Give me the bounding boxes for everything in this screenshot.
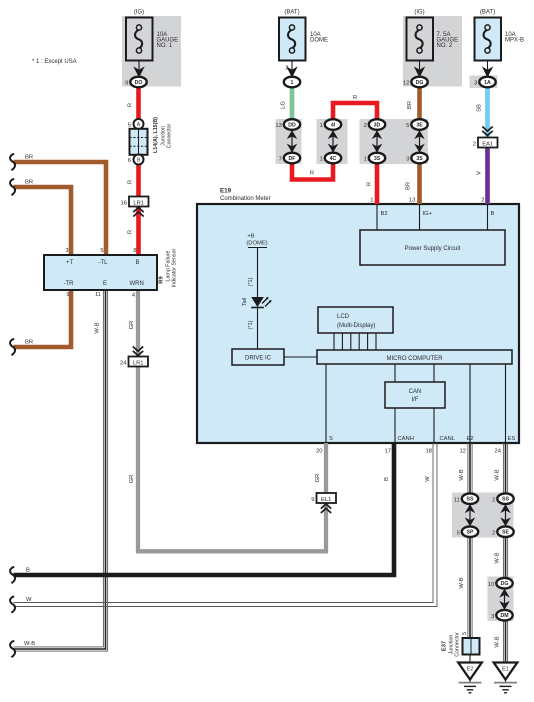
svg-text:B: B — [136, 260, 140, 266]
svg-text:W: W — [425, 476, 431, 482]
shaded block connector 1A area — [470, 76, 498, 89]
svg-text:DD: DD — [288, 123, 296, 129]
connector DF pin 7 — [279, 153, 301, 164]
fuse DOME 10A (BAT) — [279, 10, 328, 61]
svg-text:NO. 2: NO. 2 — [437, 43, 453, 49]
svg-text:BR: BR — [25, 340, 33, 346]
junction pass-through arrows DG-DM — [500, 589, 509, 611]
wire CANH CAN IF to pin — [394, 408, 396, 443]
svg-text:3: 3 — [474, 81, 477, 87]
shaded block fuse GAUGE NO.2 area — [403, 16, 462, 87]
svg-text:6: 6 — [128, 158, 131, 164]
svg-text:CAN: CAN — [409, 389, 422, 395]
shaded block connectors DG/DM — [488, 577, 514, 622]
connector 1A pin 3 — [474, 77, 496, 88]
svg-text:2: 2 — [492, 530, 495, 536]
wire LG from DOME fuse to connector DD — [290, 84, 295, 121]
svg-text:E19: E19 — [220, 188, 232, 195]
wire break squiggle BR3 — [10, 339, 15, 355]
svg-text:R: R — [367, 182, 373, 186]
svg-text:24: 24 — [120, 360, 127, 366]
svg-text:2: 2 — [473, 141, 476, 147]
shaded block connectors DD/DF — [276, 119, 302, 164]
svg-text:SS: SS — [502, 497, 509, 503]
svg-text:11: 11 — [95, 292, 101, 298]
svg-text:4I: 4I — [331, 123, 336, 129]
svg-text:5: 5 — [100, 248, 103, 254]
arrow below fuse GAUGE NO.2 — [419, 61, 421, 70]
wire B from E19 pin CANH — [14, 443, 395, 575]
connector DD pin 13 — [275, 119, 300, 130]
svg-text:R9: R9 — [159, 276, 165, 284]
micro computer box — [317, 350, 512, 364]
svg-text:W-B: W-B — [24, 641, 35, 647]
svg-text:W-B: W-B — [95, 322, 101, 333]
svg-text:DM: DM — [500, 613, 508, 619]
connector SS pin 2 — [492, 493, 514, 504]
svg-text:5: 5 — [128, 123, 131, 129]
wire micro computer to CAN IF — [394, 364, 396, 382]
connector SE pin 2 — [492, 526, 514, 537]
wire R from fuse GAUGE NO.1 column down to R9 pin B — [136, 84, 141, 255]
wire break squiggle BR1 — [10, 154, 15, 170]
wire break squiggle W — [10, 596, 15, 612]
wire W-B from SP to E37 — [467, 537, 469, 638]
power supply circuit box — [360, 230, 505, 265]
wire BR to R9 pin +T — [14, 187, 72, 255]
wire break squiggle W-B — [10, 641, 15, 657]
svg-text:LG: LG — [281, 101, 287, 109]
svg-text:ES: ES — [508, 436, 516, 442]
connector LR1 pin 24 — [120, 347, 148, 367]
wire CANL CAN IF to pin — [433, 408, 435, 443]
junction pass-through arrows 3E-3S — [415, 130, 424, 153]
svg-text:Tail: Tail — [242, 298, 248, 306]
svg-text:3: 3 — [406, 157, 409, 163]
svg-text:(Multi-Display): (Multi-Display) — [337, 323, 375, 329]
svg-text:9: 9 — [311, 497, 314, 503]
wire W-B from E19 pin E2 to SS — [467, 443, 469, 494]
svg-text:4C: 4C — [330, 156, 337, 162]
svg-text:R: R — [128, 180, 134, 184]
svg-text:12: 12 — [460, 449, 466, 455]
svg-text:3: 3 — [491, 614, 494, 620]
svg-text:BR: BR — [25, 180, 33, 186]
svg-text:MPX-B: MPX-B — [505, 37, 524, 43]
connector SS pin 11 — [454, 493, 478, 504]
svg-text:L14(A), L15(B): L14(A), L15(B) — [153, 117, 159, 153]
connector 3E pin 5 — [406, 119, 428, 130]
svg-text:1A: 1A — [484, 80, 491, 86]
svg-text:3: 3 — [65, 248, 68, 254]
wire E2 micro computer to pin — [469, 364, 471, 443]
svg-text:Combination Meter: Combination Meter — [220, 196, 271, 202]
svg-text:DG: DG — [416, 80, 424, 86]
fuse GAUGE NO.1 10A (IG) — [126, 10, 178, 61]
E19 pin B lead — [487, 205, 489, 230]
arrow below fuse DOME — [291, 61, 293, 70]
CAN IF box — [385, 382, 445, 408]
node +B (DOME) — [246, 234, 267, 350]
connector DO pin 9 — [125, 77, 147, 88]
svg-text:3S: 3S — [374, 156, 381, 162]
junction pass-through arrows SS-SP — [466, 504, 475, 527]
svg-text:B: B — [26, 568, 30, 574]
svg-text:IG+: IG+ — [423, 211, 433, 217]
svg-text:5: 5 — [406, 123, 409, 129]
connector 3D pin 2 — [364, 119, 386, 130]
svg-text:13: 13 — [409, 198, 415, 204]
arrow below fuse MPX-B — [487, 61, 489, 70]
svg-text:V: V — [477, 171, 483, 175]
svg-text:NO. 1: NO. 1 — [157, 43, 173, 49]
wire W-B from R9 pin E — [14, 290, 104, 647]
wire ES micro computer to pin — [505, 364, 507, 443]
LCD bus lines — [334, 333, 376, 350]
svg-text:GR: GR — [129, 475, 135, 484]
wire BR from fuse GAUGE NO.2 to connector 3E — [417, 84, 422, 121]
connector EL1 pin 9 — [311, 493, 336, 513]
E19 pin IG+ lead — [419, 205, 421, 230]
drive IC box — [232, 349, 284, 365]
svg-text:BR: BR — [407, 101, 413, 109]
svg-text:(IG): (IG) — [134, 10, 144, 16]
svg-text:B: B — [491, 211, 495, 217]
ground E1 — [494, 663, 518, 693]
junction connector L14(A), L15(B) — [128, 117, 173, 165]
svg-text:LR1: LR1 — [133, 200, 144, 206]
svg-text:-TR: -TR — [64, 281, 75, 287]
shaded block fuse GAUGE NO.1 area — [122, 16, 181, 87]
wire GR from R9 pin WRN to E19 pin S — [138, 290, 326, 551]
wire R from 3S to E19 pin B2 — [375, 163, 380, 204]
svg-text:Power Supply Circuit: Power Supply Circuit — [405, 246, 461, 252]
wire break squiggle B — [10, 567, 15, 583]
svg-text:SE: SE — [502, 530, 509, 536]
svg-text:W-B: W-B — [495, 552, 501, 563]
svg-text:BR: BR — [25, 155, 33, 161]
connector 4I pin 1 — [320, 119, 342, 130]
combination meter E19 box — [197, 188, 519, 444]
svg-text:E37: E37 — [442, 641, 448, 651]
svg-text:18: 18 — [426, 449, 432, 455]
svg-text:+B: +B — [247, 234, 254, 240]
svg-text:(*1): (*1) — [248, 277, 254, 286]
connector SP pin 5 — [457, 526, 479, 537]
junction pass-through arrows SS-SE — [501, 504, 510, 527]
svg-text:5: 5 — [457, 530, 460, 536]
svg-text:-TL: -TL — [99, 260, 109, 266]
shaded block connectors SS/SP/SS/SE — [452, 493, 514, 538]
connector 3S pin 3 — [406, 153, 428, 164]
svg-text:B: B — [384, 477, 390, 481]
svg-text:10: 10 — [488, 582, 494, 588]
svg-text:(BAT): (BAT) — [284, 10, 299, 16]
svg-text:3D: 3D — [374, 123, 381, 129]
svg-text:8: 8 — [133, 248, 136, 254]
svg-text:24: 24 — [495, 449, 502, 455]
E19 pin B2 lead — [376, 205, 378, 230]
svg-text:LCD: LCD — [337, 314, 350, 320]
junction pass-through arrows DD-DF — [288, 130, 297, 153]
svg-text:WRN: WRN — [130, 281, 144, 287]
wire drive IC to micro computer — [284, 356, 317, 358]
svg-text:3E: 3E — [416, 123, 423, 129]
svg-text:E1: E1 — [502, 667, 509, 673]
svg-text:2: 2 — [492, 497, 495, 503]
svg-text:17: 17 — [385, 449, 391, 455]
svg-text:S: S — [329, 436, 333, 442]
svg-text:9: 9 — [66, 292, 69, 298]
svg-text:GR: GR — [315, 474, 321, 483]
svg-text:DRIVE IC: DRIVE IC — [245, 356, 272, 362]
svg-text:W-B: W-B — [495, 469, 501, 480]
connector 3S pin 1 — [364, 153, 386, 164]
svg-text:Connector: Connector — [455, 632, 461, 657]
wire SB from MPX-B fuse to EA1 — [485, 84, 490, 137]
svg-text:BR: BR — [406, 182, 412, 190]
svg-text:2: 2 — [364, 123, 367, 129]
wire R zigzag DF to 4C — [292, 162, 333, 180]
connector EA1 pin 2 — [473, 127, 498, 148]
svg-text:12: 12 — [403, 81, 409, 87]
LCD multi-display box — [318, 307, 393, 333]
svg-text:SP: SP — [467, 530, 474, 536]
junction connector E37 — [442, 632, 480, 663]
connector 1 pin 2 — [284, 77, 300, 88]
LED tail indicator — [242, 297, 272, 308]
shaded block connectors 4I/4C — [317, 119, 348, 164]
svg-text:W-B: W-B — [495, 636, 501, 647]
svg-text:W: W — [26, 597, 32, 603]
wire W-B from SE to DG — [502, 537, 504, 580]
connector DG pin 12 — [403, 77, 428, 88]
svg-text:DG: DG — [501, 581, 509, 587]
wire R zigzag 4I to 3D — [333, 103, 377, 121]
svg-text:SB: SB — [477, 104, 483, 112]
svg-text:R: R — [128, 103, 134, 107]
junction pass-through arrows 3D-3S — [373, 130, 382, 153]
svg-text:1: 1 — [291, 80, 294, 86]
svg-text:GR: GR — [129, 321, 135, 330]
svg-text:R: R — [128, 230, 134, 234]
wire BR from 3S to E19 pin IG+ — [417, 163, 422, 204]
svg-text:1: 1 — [320, 157, 323, 163]
connector 4C pin 1 — [320, 153, 342, 164]
svg-text:+T: +T — [66, 260, 74, 266]
svg-text:R: R — [353, 95, 357, 101]
wire break squiggle BR2 — [10, 179, 15, 195]
svg-text:(*1): (*1) — [248, 320, 254, 329]
connector DM pin 3 — [491, 610, 513, 621]
svg-text:LR1: LR1 — [133, 360, 144, 366]
svg-text:EA1: EA1 — [482, 141, 493, 147]
svg-text:(IG): (IG) — [414, 10, 424, 16]
svg-text:B2: B2 — [381, 211, 388, 217]
svg-text:MICRO COMPUTER: MICRO COMPUTER — [387, 356, 444, 362]
svg-text:7: 7 — [279, 157, 282, 163]
svg-text:11: 11 — [454, 497, 460, 503]
svg-text:(DOME): (DOME) — [246, 241, 267, 247]
svg-text:5: 5 — [462, 632, 468, 635]
svg-text:DF: DF — [289, 156, 296, 162]
connector LR1 pin 16 — [121, 197, 149, 217]
svg-text:1: 1 — [370, 198, 373, 204]
svg-text:DO: DO — [135, 80, 143, 86]
wire W-B from E19 pin ES to SS — [502, 443, 504, 494]
fuse MPX-B 10A (BAT) — [475, 10, 525, 61]
wire S micro computer to pin — [325, 364, 327, 443]
svg-text:Connector: Connector — [167, 124, 173, 149]
wire V from EA1 to E19 pin B — [485, 148, 490, 205]
svg-text:2: 2 — [481, 198, 484, 204]
svg-text:I/F: I/F — [412, 397, 419, 403]
svg-text:DOME: DOME — [310, 37, 328, 43]
svg-text:E: E — [103, 281, 107, 287]
svg-text:W-B: W-B — [459, 469, 465, 480]
svg-text:* 1 : Except USA: * 1 : Except USA — [32, 59, 77, 65]
ground E2 — [458, 663, 482, 693]
svg-text:CANH: CANH — [398, 436, 414, 442]
junction pass-through arrows 4I-4C — [329, 130, 338, 153]
svg-text:16: 16 — [121, 200, 127, 206]
svg-text:SS: SS — [467, 497, 474, 503]
svg-text:1: 1 — [320, 123, 323, 129]
E19 bottom pin labels — [316, 436, 515, 455]
svg-text:E2: E2 — [467, 667, 474, 673]
wire W-B from DM to ground E1 — [502, 620, 504, 663]
svg-text:W-B: W-B — [459, 577, 465, 588]
svg-text:20: 20 — [316, 449, 322, 455]
svg-text:13: 13 — [275, 123, 281, 129]
lamp failure indicator sensor R9 — [44, 248, 178, 299]
shaded block connectors 3D/3S/3E/3S — [360, 119, 429, 164]
svg-text:R: R — [310, 171, 314, 177]
svg-text:1: 1 — [364, 157, 367, 163]
wire BR from R9 pin -TR — [14, 290, 72, 347]
arrow below fuse GAUGE NO.1 — [138, 61, 140, 70]
svg-text:CANL: CANL — [440, 436, 456, 442]
svg-text:E2: E2 — [467, 436, 474, 442]
svg-text:3S: 3S — [416, 156, 423, 162]
fuse GAUGE NO.2 7.5A (IG) — [407, 10, 459, 61]
wire BR to R9 pin -TL — [14, 162, 107, 255]
svg-text:EL1: EL1 — [321, 497, 331, 503]
svg-text:Indicator Sensor: Indicator Sensor — [172, 248, 178, 287]
svg-text:9: 9 — [125, 81, 128, 87]
connector DG pin 10 — [488, 578, 513, 589]
svg-text:(BAT): (BAT) — [480, 10, 495, 16]
wire W from E19 pin CANL — [14, 443, 434, 603]
